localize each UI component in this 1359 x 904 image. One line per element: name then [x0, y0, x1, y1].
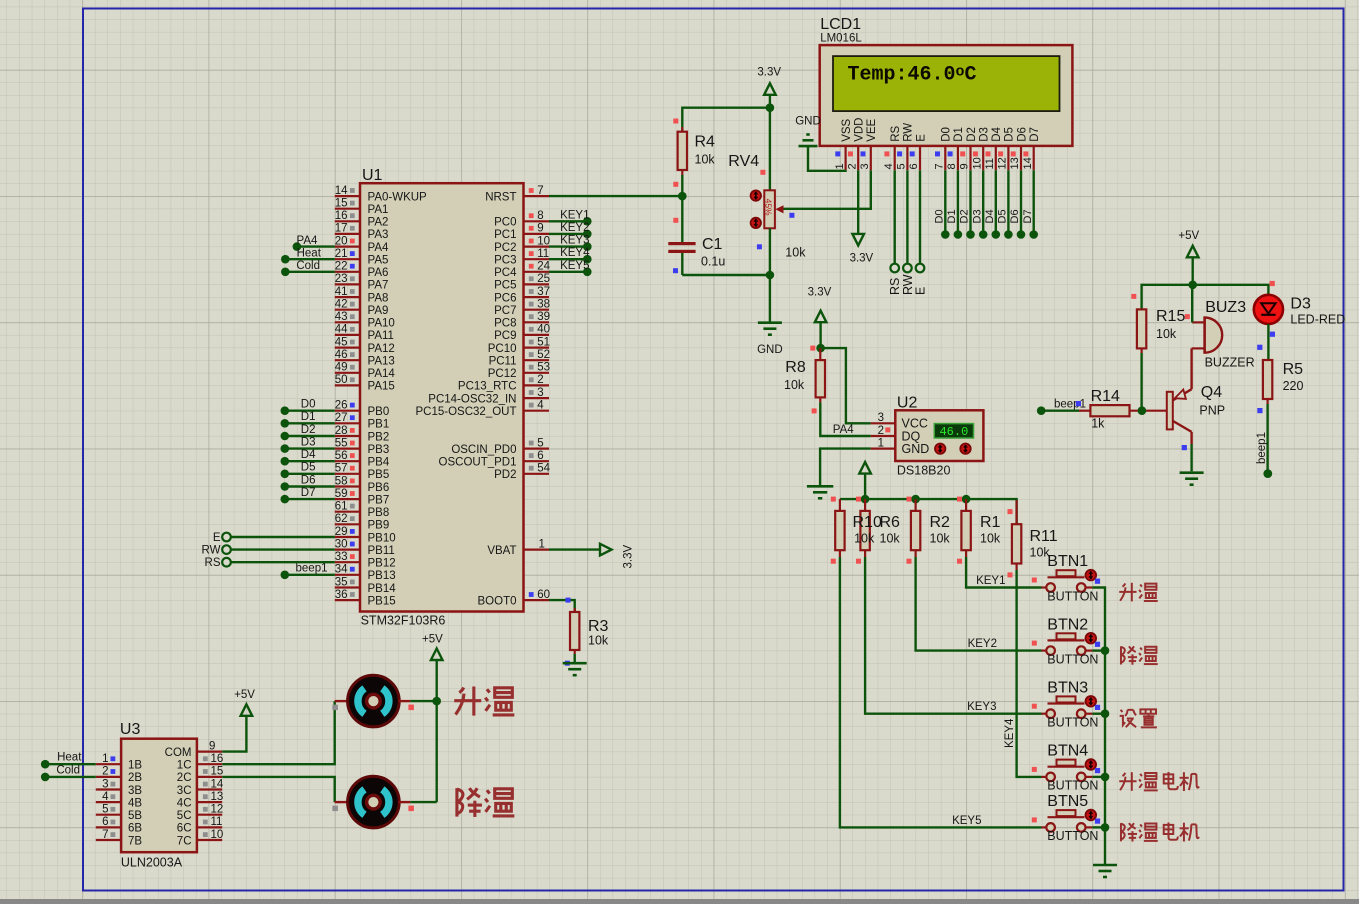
U2 pin 3 (VCC) [871, 412, 928, 431]
wire net D3 to U1 PB3 [281, 436, 335, 453]
junction rail row 60 [1101, 823, 1110, 832]
svg-text:VEE: VEE [866, 118, 878, 141]
svg-text:D3: D3 [1290, 296, 1311, 313]
U1 pin 33 (PB12) [335, 551, 396, 570]
svg-text:D3: D3 [979, 127, 991, 142]
svg-text:PC7: PC7 [494, 305, 516, 317]
U1 pin 55 (PB3) [335, 437, 390, 456]
wire net D5 from LCD pin 12 [997, 170, 1013, 239]
svg-text:39: 39 [537, 311, 550, 323]
svg-text:2: 2 [846, 163, 858, 169]
svg-text:PA5: PA5 [368, 255, 389, 267]
svg-text:16: 16 [211, 753, 224, 765]
svg-text:45: 45 [335, 336, 348, 348]
resistor R3 10k [570, 608, 609, 654]
wire net KEY1 R1 to BTN1 [966, 557, 1041, 588]
svg-text:33: 33 [335, 551, 348, 563]
U1 pin 57 (PB5) [335, 463, 390, 482]
svg-text:7: 7 [934, 163, 946, 169]
svg-text:R10: R10 [853, 514, 882, 531]
U1 pin 37 (PC6) [494, 286, 550, 305]
svg-text:D0: D0 [934, 209, 946, 223]
resistor R10 10k [831, 497, 882, 564]
svg-text:beep1: beep1 [1256, 432, 1268, 464]
LCD1 pin 12 (D5) [997, 127, 1016, 170]
U1 pin 26 (PB0) [335, 400, 390, 419]
label 升温 at motor1 [454, 686, 514, 715]
wire R15 bottom to Q4 base node [1140, 353, 1142, 411]
svg-text:PA4: PA4 [833, 424, 854, 436]
junction rail row 51 [1101, 709, 1110, 718]
U3 pin 3 (3B) [96, 778, 143, 797]
svg-text:Heat: Heat [57, 752, 82, 764]
svg-text:D6: D6 [1009, 209, 1021, 223]
U1 pin 30 (PB11) [335, 538, 395, 557]
svg-text:1: 1 [878, 437, 884, 449]
svg-text:PC13_RTC: PC13_RTC [458, 381, 517, 393]
svg-text:PB4: PB4 [368, 457, 390, 469]
svg-text:11: 11 [984, 158, 996, 169]
wire net PA4 to U1 pin20 [293, 235, 335, 251]
svg-text:PA15: PA15 [368, 381, 395, 393]
svg-text:R2: R2 [930, 514, 951, 531]
U2 pin 1 (GND) [871, 437, 929, 456]
U2 pin 2 (DQ) [871, 425, 921, 444]
U1 pin 53 (PC12) [488, 362, 550, 381]
LCD1 pin 7 (D0) [934, 127, 953, 170]
svg-text:D1: D1 [946, 209, 958, 223]
wire R5 to beep1 end [1256, 404, 1268, 474]
resistor R1 10k [957, 497, 1001, 564]
svg-text:PC0: PC0 [494, 217, 516, 229]
U1 pin 35 (PB14) [335, 576, 397, 595]
net beep1 end dot at R5 [1263, 469, 1272, 478]
svg-text:PA4: PA4 [368, 242, 389, 254]
wire motor1 to +5V rail [410, 700, 436, 702]
svg-text:BTN1: BTN1 [1047, 553, 1088, 570]
svg-text:+5V: +5V [1178, 230, 1199, 242]
svg-text:BUTTON: BUTTON [1047, 829, 1098, 843]
wire net PA4 from R8 to U2 DQ [820, 402, 871, 436]
svg-text:4: 4 [883, 163, 895, 169]
U1 pin 1 (VBAT) [487, 538, 549, 557]
svg-text:KEY2: KEY2 [968, 638, 997, 650]
LED D3 LED-RED [1254, 281, 1345, 327]
svg-text:STM32F103R6: STM32F103R6 [361, 614, 446, 628]
svg-text:GND: GND [795, 115, 821, 127]
wire net KEY1 from U1 [549, 209, 592, 225]
svg-text:6: 6 [102, 816, 108, 828]
svg-text:KEY4: KEY4 [1004, 718, 1016, 748]
svg-text:D4: D4 [991, 126, 1003, 141]
LCD1 pin 6 (E) [908, 134, 927, 170]
power terminal above resistor bank [859, 462, 871, 499]
U1 pin 23 (PA7) [335, 273, 389, 292]
wire net D1 from LCD pin 8 [946, 170, 962, 239]
svg-text:22: 22 [335, 261, 348, 273]
svg-text:1: 1 [539, 538, 545, 550]
svg-text:37: 37 [537, 286, 550, 298]
svg-text:25: 25 [537, 273, 550, 285]
wire +5V to buzzer top pin [1185, 285, 1192, 323]
svg-text:PB3: PB3 [368, 444, 390, 456]
svg-text:40: 40 [537, 324, 550, 336]
U1 pin 38 (PC7) [494, 299, 550, 318]
U2 DQ state square [885, 427, 890, 432]
svg-text:12: 12 [997, 157, 1009, 169]
wire net Heat to U3 pin1 [41, 752, 96, 769]
svg-text:51: 51 [537, 336, 550, 348]
svg-text:R11: R11 [1030, 528, 1058, 545]
junction rail/R2 [911, 495, 920, 504]
resistor R15 10k [1131, 294, 1185, 353]
svg-text:10k: 10k [854, 532, 875, 546]
svg-text:KEY4: KEY4 [560, 247, 590, 259]
svg-text:R6: R6 [880, 514, 901, 531]
svg-text:KEY5: KEY5 [560, 260, 589, 272]
svg-text:58: 58 [335, 475, 348, 487]
svg-text:52: 52 [537, 349, 550, 361]
svg-text:59: 59 [335, 488, 348, 500]
svg-text:NRST: NRST [485, 191, 516, 203]
junction motor1 / +5V rail [432, 697, 441, 706]
resistor R4 10k [673, 119, 715, 187]
resistor R2 10k [907, 497, 951, 564]
svg-text:10k: 10k [785, 246, 806, 260]
U1 pin 2 (PC13_RTC) [458, 374, 549, 393]
svg-text:D2: D2 [966, 127, 978, 142]
svg-text:LED-RED: LED-RED [1290, 313, 1345, 327]
U2 display 46.0 [934, 424, 973, 439]
svg-text:R8: R8 [785, 359, 806, 376]
wire net Cold to U3 pin2 [41, 764, 96, 781]
svg-text:PC6: PC6 [494, 292, 516, 304]
U1 pin 6 (OSCOUT_PD1) [439, 450, 549, 469]
svg-text:1: 1 [834, 163, 846, 169]
svg-text:RS: RS [205, 557, 221, 569]
wire net D7 to U1 PB7 [281, 487, 335, 504]
wire U3 1C to motor1 [222, 701, 335, 764]
svg-text:54: 54 [537, 463, 550, 475]
U1 pin 43 (PA10) [335, 311, 395, 330]
wire BTN right to rail at row 56 [1092, 776, 1105, 778]
terminal E below LCD [914, 170, 928, 295]
capacitor C1 0.1u [668, 196, 725, 275]
svg-text:4: 4 [537, 400, 544, 412]
svg-text:8: 8 [537, 210, 543, 222]
resistor R5 220 [1263, 360, 1304, 404]
svg-text:11: 11 [537, 248, 549, 260]
svg-text:PD2: PD2 [494, 469, 516, 481]
wire U2 GND to ground [820, 449, 871, 487]
terminal RS to U1 [205, 557, 335, 569]
svg-text:E: E [914, 287, 928, 295]
svg-text:PA8: PA8 [368, 292, 389, 304]
svg-text:57: 57 [335, 463, 348, 475]
svg-text:BUTTON: BUTTON [1047, 589, 1098, 603]
svg-text:PB15: PB15 [368, 595, 396, 607]
LCD LCD1 LM016L body [820, 16, 1073, 146]
label 降温 at motor2 [457, 788, 514, 817]
wire LCD VSS to ground [808, 146, 846, 171]
svg-text:PB0: PB0 [368, 406, 390, 418]
svg-text:49: 49 [335, 362, 348, 374]
junction R8 top [810, 344, 825, 353]
svg-text:35: 35 [335, 576, 348, 588]
junction rail/R6 [861, 495, 870, 504]
U3 pin 12 (5C) [177, 804, 224, 823]
svg-text:PC3: PC3 [494, 255, 516, 267]
svg-text:PA4: PA4 [297, 235, 318, 247]
svg-text:VSS: VSS [841, 118, 853, 141]
U1 pin 8 (PC0) [494, 210, 549, 229]
svg-text:46.0: 46.0 [939, 425, 968, 439]
svg-text:220: 220 [1283, 379, 1304, 393]
svg-text:R3: R3 [588, 618, 609, 635]
wire BTN right to rail at row 51 [1092, 713, 1105, 715]
U1 pin 45 (PA12) [335, 336, 395, 355]
U1 pin 4 (PC15-OSC32_OUT) [416, 400, 549, 419]
svg-text:1C: 1C [177, 760, 192, 772]
ground at LCD VSS (inverted) [795, 115, 821, 146]
U1 pin 40 (PC9) [494, 324, 550, 343]
svg-text:D6: D6 [301, 474, 316, 486]
svg-text:6C: 6C [177, 823, 192, 835]
wire net D0 to U1 PB0 [281, 399, 335, 416]
wire R3 to ground [565, 654, 575, 666]
U1 pin 11 (PC3) [494, 248, 549, 267]
U1 pin 54 (PD2) [494, 463, 550, 482]
svg-text:D1: D1 [953, 127, 965, 142]
svg-text:R1: R1 [980, 514, 1001, 531]
svg-text:20: 20 [335, 235, 348, 247]
wire net D0 from LCD pin 7 [934, 170, 950, 239]
svg-text:2: 2 [878, 425, 884, 437]
svg-text:beep1: beep1 [296, 563, 328, 575]
svg-text:46: 46 [335, 349, 348, 361]
svg-text:PB1: PB1 [368, 419, 390, 431]
svg-text:10k: 10k [588, 634, 609, 648]
LCD1 pin 3 (VEE) [859, 118, 878, 170]
wire net KEY5 from U1 [549, 260, 592, 276]
U1 pin 15 (PA1) [335, 198, 389, 217]
U1 pin 10 (PC2) [494, 235, 550, 254]
wire LED to R5 [1257, 324, 1275, 360]
svg-text:16: 16 [335, 210, 348, 222]
U1 pin 27 (PB1) [335, 412, 390, 431]
wire net D4 from LCD pin 11 [984, 170, 1000, 239]
wire U1 BOOT0 to R3 [549, 598, 575, 612]
svg-text:10k: 10k [880, 532, 901, 546]
svg-text:BUTTON: BUTTON [1047, 652, 1098, 666]
svg-text:KEY5: KEY5 [952, 815, 981, 827]
svg-text:U1: U1 [362, 167, 383, 184]
resistor R11 10k [1008, 500, 1058, 577]
U1 pin 36 (PB15) [335, 589, 396, 608]
svg-text:PC2: PC2 [494, 242, 516, 254]
svg-text:PB14: PB14 [368, 583, 397, 595]
svg-text:PB6: PB6 [368, 482, 390, 494]
svg-text:+5V: +5V [422, 634, 443, 646]
LCD1 pin 2 (VDD) [846, 118, 865, 171]
svg-text:PNP: PNP [1199, 404, 1225, 418]
resistor R14 1k [1079, 388, 1167, 431]
wire net KEY2 R2 to BTN2 [916, 557, 1042, 651]
svg-text:15: 15 [211, 766, 224, 778]
LCD1 pin 13 (D6) [1009, 127, 1028, 170]
svg-text:VBAT: VBAT [487, 545, 516, 557]
svg-text:3.3V: 3.3V [757, 67, 781, 79]
svg-text:44: 44 [335, 324, 348, 336]
U1 pin 39 (PC8) [494, 311, 550, 330]
svg-text:PC5: PC5 [494, 280, 516, 292]
U1 pin 3 (PC14-OSC32_IN) [428, 387, 549, 406]
wire U1 NRST to R4/C1 node [549, 195, 682, 197]
wire net D1 to U1 PB1 [281, 411, 335, 428]
svg-text:PB2: PB2 [368, 431, 390, 443]
U1 pin 49 (PA14) [335, 362, 396, 381]
svg-text:RW: RW [202, 545, 221, 557]
ground below R3 [563, 663, 587, 675]
junction rail row 56 [1101, 773, 1110, 782]
svg-text:60: 60 [537, 589, 550, 601]
svg-text:10: 10 [211, 829, 224, 841]
label for BTN4 [1119, 772, 1199, 791]
wire 3.3V node to U2 VCC [821, 348, 871, 423]
svg-text:55: 55 [335, 437, 348, 449]
svg-text:7: 7 [537, 185, 543, 197]
svg-text:D2: D2 [959, 209, 971, 223]
svg-text:PA7: PA7 [368, 280, 389, 292]
svg-text:R5: R5 [1283, 361, 1304, 378]
svg-text:12: 12 [211, 804, 224, 816]
motor FAN2 (cooling) [332, 776, 414, 828]
svg-text:DS18B20: DS18B20 [897, 464, 951, 478]
svg-text:10: 10 [971, 157, 983, 169]
svg-text:D5: D5 [301, 462, 316, 474]
svg-text:10k: 10k [980, 532, 1001, 546]
svg-text:2C: 2C [177, 772, 192, 784]
svg-text:41: 41 [335, 286, 348, 298]
svg-text:3B: 3B [128, 785, 142, 797]
svg-text:+5V: +5V [234, 689, 255, 701]
svg-text:PA14: PA14 [368, 368, 396, 380]
svg-text:BUZZER: BUZZER [1205, 356, 1255, 370]
svg-text:PB11: PB11 [368, 545, 395, 557]
svg-text:BUZ3: BUZ3 [1205, 299, 1246, 316]
svg-text:PB5: PB5 [368, 469, 390, 481]
svg-text:50: 50 [335, 374, 348, 386]
U1 pin 56 (PB4) [335, 450, 390, 469]
chip U3 ULN2003A body [120, 721, 197, 870]
svg-text:D3: D3 [301, 436, 316, 448]
svg-text:7B: 7B [128, 835, 142, 847]
svg-text:D4: D4 [984, 209, 996, 223]
resistor R8 10k [784, 348, 825, 413]
wire motor2 to +5V rail [410, 801, 436, 803]
U1 pin 59 (PB7) [335, 488, 390, 507]
LCD1 pin 11 (D4) [984, 126, 1003, 170]
U3 pin 13 (4C) [177, 791, 224, 810]
svg-text:6B: 6B [128, 823, 142, 835]
svg-text:5C: 5C [177, 810, 192, 822]
svg-text:PA6: PA6 [368, 267, 389, 279]
U3 pin 11 (6C) [177, 816, 223, 835]
button BTN4 [1032, 743, 1100, 793]
svg-text:36: 36 [335, 589, 348, 601]
svg-text:PC1: PC1 [494, 229, 516, 241]
U3 pin 7 (7B) [96, 829, 143, 848]
LCD1 pin 5 (RW) [896, 123, 915, 170]
svg-text:3C: 3C [177, 785, 192, 797]
svg-text:GND: GND [902, 442, 930, 456]
wire +5V rail R15 to LED [1142, 285, 1269, 310]
svg-text:15: 15 [335, 198, 348, 210]
svg-text:D7: D7 [1022, 209, 1034, 223]
svg-text:GND: GND [757, 344, 783, 356]
U1 pin 25 (PC5) [494, 273, 550, 292]
svg-text:PC4: PC4 [494, 267, 517, 279]
svg-text:PA9: PA9 [368, 305, 389, 317]
svg-text:9: 9 [959, 163, 971, 169]
svg-text:5B: 5B [128, 810, 142, 822]
U1 pin 21 (PA5) [335, 248, 389, 267]
svg-text:PB7: PB7 [368, 494, 390, 506]
svg-text:BUTTON: BUTTON [1047, 716, 1098, 730]
U1 pin 42 (PA9) [335, 299, 389, 318]
wire U3 2C to motor2 [222, 777, 335, 802]
svg-text:2: 2 [102, 766, 108, 778]
U1 pin 41 (PA8) [335, 286, 389, 305]
U3 pin 9 (COM) [165, 740, 223, 759]
terminal RW to U1 [202, 545, 335, 557]
wire R4 bottom to NRST node [681, 175, 683, 196]
svg-text:COM: COM [165, 747, 192, 759]
svg-text:4: 4 [102, 791, 109, 803]
svg-text:PA2: PA2 [368, 217, 389, 229]
svg-text:R14: R14 [1091, 388, 1120, 405]
wire net KEY3 from U1 [549, 235, 592, 251]
terminal E to U1 [213, 532, 335, 544]
U1 pin 28 (PB2) [335, 425, 390, 444]
svg-text:PB12: PB12 [368, 558, 396, 570]
svg-text:VDD: VDD [854, 118, 866, 142]
svg-text:PC15-OSC32_OUT: PC15-OSC32_OUT [416, 406, 517, 418]
U3 pin 1 (1B) [96, 753, 143, 772]
svg-text:10: 10 [537, 235, 550, 247]
wire U3 COM to +5V [222, 716, 246, 752]
wire net D3 from LCD pin 10 [971, 170, 987, 239]
junction rail/R1 [962, 495, 971, 504]
svg-text:BOOT0: BOOT0 [478, 595, 517, 607]
LCD1 pin 4 (RS) [883, 125, 902, 170]
label for BTN2 [1121, 646, 1158, 664]
motor FAN1 (heating) [332, 675, 414, 727]
button BTN2 [1032, 616, 1100, 666]
svg-text:Q4: Q4 [1201, 384, 1222, 401]
junction rail row 46 [1101, 646, 1110, 655]
chip U1 STM32F103R6 body [360, 167, 524, 628]
wire net D7 from LCD pin 14 [1022, 170, 1038, 239]
svg-text:7C: 7C [177, 835, 192, 847]
svg-text:10k: 10k [930, 532, 951, 546]
LCD1 pin 9 (D2) [959, 127, 978, 170]
U1 pin 58 (PB6) [335, 475, 390, 494]
svg-text:R4: R4 [695, 134, 716, 151]
svg-text:10k: 10k [695, 153, 716, 167]
ground below Q4 [1180, 473, 1204, 485]
U1 pin 46 (PA13) [335, 349, 395, 368]
